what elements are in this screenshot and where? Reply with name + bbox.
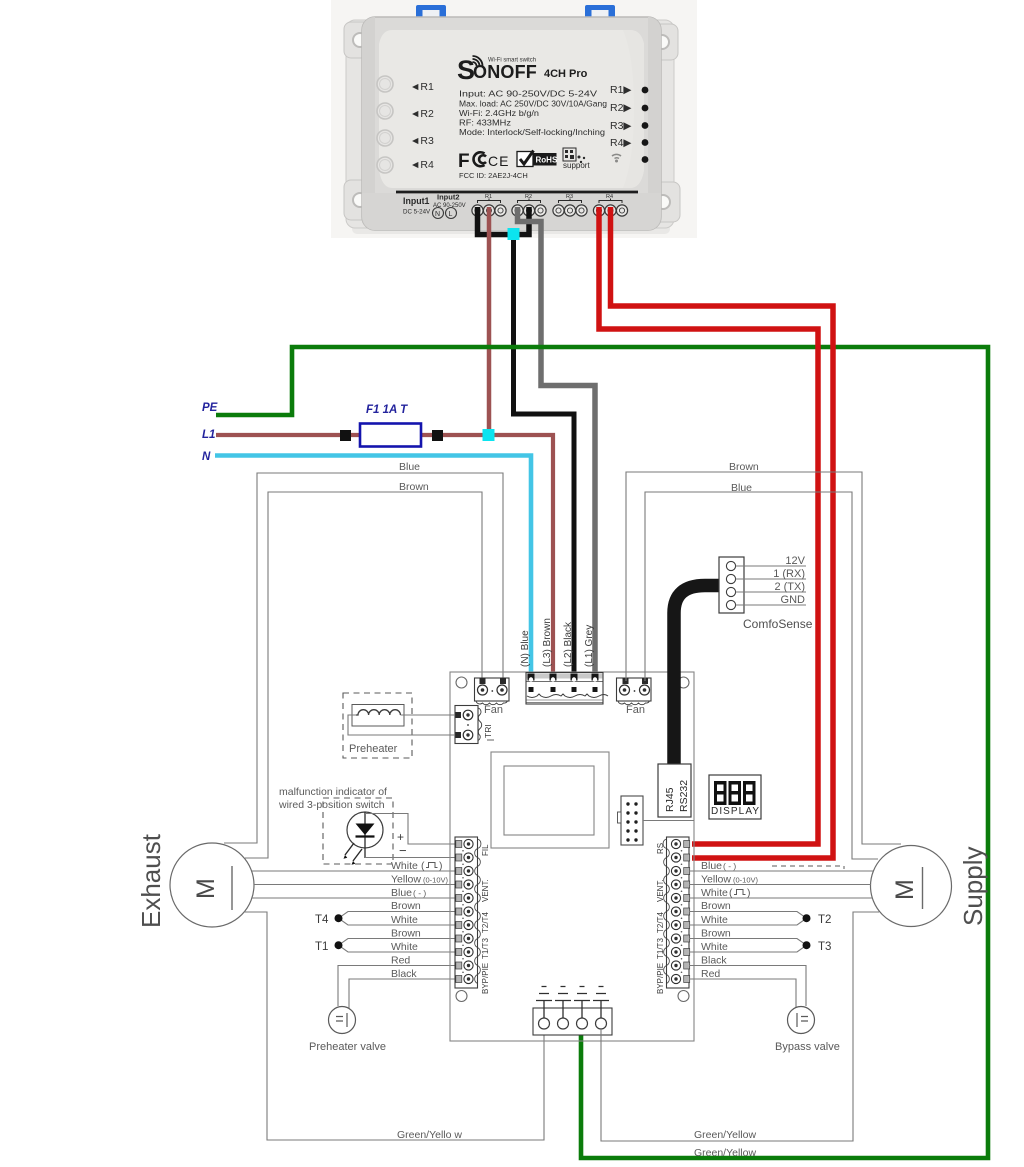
wire Brown routing box right	[626, 472, 901, 844]
svg-text:M: M	[192, 878, 220, 899]
wire preheater to TRI bottom	[348, 715, 455, 735]
terminal group R3	[553, 194, 587, 216]
svg-text:R4▶: R4▶	[610, 137, 632, 149]
svg-text:(: (	[729, 887, 733, 899]
RJ45 RS232 box	[658, 764, 691, 817]
right strip terminal y=857.5	[684, 854, 690, 861]
terminal strip left	[455, 837, 481, 988]
svg-text:Blue: Blue	[701, 860, 722, 872]
svg-text:Blue: Blue	[391, 887, 412, 899]
supply motor M	[871, 846, 952, 927]
svg-text:( - ): ( - )	[413, 888, 426, 898]
wire red to bypass valve	[689, 979, 796, 1008]
wifi status icon	[612, 154, 621, 158]
svg-text:Bypass valve: Bypass valve	[775, 1041, 840, 1053]
wire blue strip to motor	[689, 870, 873, 872]
svg-text:T1: T1	[315, 941, 328, 953]
svg-text:): )	[747, 887, 751, 899]
svg-text:+: +	[397, 830, 404, 844]
wire yellow strip to motor	[689, 884, 871, 886]
left strip terminal y=884.5	[456, 881, 462, 888]
svg-text:RoHS: RoHS	[536, 156, 558, 165]
wire grey R2-NO down	[518, 207, 596, 676]
logo wifi arcs	[473, 56, 483, 66]
TERMINAL_ROWS	[456, 839, 690, 983]
fan terminal block right	[617, 678, 652, 716]
svg-text:R4: R4	[606, 194, 613, 200]
svg-text:◄R3: ◄R3	[410, 135, 434, 147]
preheater coil box	[352, 705, 404, 727]
svg-text:Brown: Brown	[701, 900, 731, 912]
RIGHT_SIDE	[601, 461, 988, 1159]
svg-text:malfunction indicator of: malfunction indicator of	[279, 786, 387, 798]
svg-text:(: (	[421, 860, 425, 872]
LEFT_SIDE	[136, 461, 544, 1141]
node T1	[335, 941, 343, 949]
left strip terminal y=965.5	[456, 962, 462, 969]
svg-text:Green/Yellow: Green/Yellow	[694, 1147, 756, 1159]
earth symbol pin2	[555, 987, 571, 1019]
svg-text:Red: Red	[391, 955, 410, 967]
dashed remnant	[772, 866, 844, 869]
right strip terminal y=871	[684, 868, 690, 875]
wire blue motor to strip	[252, 897, 456, 899]
wires T4 pair	[339, 912, 457, 926]
svg-text:CE: CE	[488, 153, 509, 169]
right strip terminal y=925	[684, 922, 690, 929]
raised centre panel	[379, 30, 644, 188]
base plate	[346, 20, 674, 228]
svg-text:Brown: Brown	[729, 461, 759, 473]
PCB window inner	[504, 766, 594, 835]
right strip terminal y=965.5	[684, 962, 690, 969]
support QR	[563, 148, 585, 163]
wire preheater to TRI top	[401, 714, 456, 716]
svg-text:Fan: Fan	[484, 704, 503, 716]
svg-text:Yellow: Yellow	[391, 874, 421, 886]
7seg digit 1	[714, 781, 727, 805]
svg-text:4CH Pro: 4CH Pro	[544, 68, 588, 80]
svg-text:RJ45: RJ45	[664, 787, 676, 812]
svg-text:R1▶: R1▶	[610, 84, 632, 96]
left strip terminal y=844	[456, 841, 462, 848]
svg-text:Yellow: Yellow	[701, 874, 731, 886]
wire 12V	[736, 565, 806, 567]
svg-text:R2▶: R2▶	[610, 102, 632, 114]
svg-text:PE: PE	[202, 402, 218, 414]
pin header	[618, 796, 644, 845]
wire Blue routing box left	[224, 473, 503, 843]
svg-text:( - ): ( - )	[723, 861, 736, 871]
preheater coil	[356, 710, 400, 715]
exhaust motor M	[170, 843, 254, 927]
svg-text:Blue: Blue	[731, 482, 752, 494]
svg-text:N: N	[202, 451, 211, 463]
svg-text:BYP/PIE: BYP/PIE	[481, 963, 490, 994]
blue clip left	[416, 5, 446, 20]
right strip terminal y=952	[684, 949, 690, 956]
mounting ear bottom-right	[642, 182, 680, 222]
wire green PE earth loop	[216, 347, 988, 1158]
svg-text:L1: L1	[202, 429, 215, 441]
blue clip right	[585, 5, 615, 20]
wire black to preheater valve	[349, 979, 456, 1009]
bottom terminal bar	[362, 193, 661, 230]
terminal group R1	[472, 194, 506, 216]
corner hole top-right	[678, 677, 689, 688]
svg-text:◄R4: ◄R4	[410, 159, 434, 171]
mains terminal block	[526, 673, 608, 705]
left strip terminal y=871	[456, 868, 462, 875]
bypass valve	[788, 1007, 815, 1034]
button R4	[377, 157, 393, 173]
wire GND	[736, 604, 806, 606]
svg-text:BYP/PIE: BYP/PIE	[656, 963, 665, 994]
comms cable thick	[674, 586, 719, 766]
LED dots	[642, 87, 649, 94]
wire pin header to box edge	[643, 820, 694, 822]
junction cyan at sonoff	[508, 228, 520, 240]
wire white strip to motor	[689, 897, 872, 899]
svg-text:ComfoSense: ComfoSense	[743, 617, 813, 631]
fan terminal block left	[475, 678, 510, 716]
svg-text:R3▶: R3▶	[610, 120, 632, 132]
corner hole top-left	[456, 677, 467, 688]
svg-text:Brown: Brown	[701, 928, 731, 940]
svg-text:support: support	[563, 161, 590, 170]
wires T2 pair	[689, 912, 807, 926]
svg-text:Red: Red	[701, 968, 720, 980]
node T2	[803, 914, 811, 922]
svg-text:(L2) Black: (L2) Black	[563, 621, 574, 667]
wires T1 pair	[339, 939, 457, 953]
svg-text:Preheater: Preheater	[349, 743, 398, 755]
left strip terminal y=979	[456, 976, 462, 983]
display box	[709, 775, 761, 819]
N L circles	[433, 208, 444, 219]
wire brown R1-COM down	[487, 207, 492, 437]
svg-text:T4: T4	[315, 914, 329, 926]
dashed box 3-position switch	[323, 798, 393, 864]
mounting ear top-right	[640, 24, 678, 60]
MAIN_UNIT	[343, 555, 813, 1041]
svg-text:Black: Black	[701, 955, 727, 967]
svg-text:Preheater valve: Preheater valve	[309, 1041, 386, 1053]
TRI terminal block	[455, 706, 482, 744]
right strip terminal y=884.5	[684, 881, 690, 888]
corner hole bottom-left	[456, 991, 467, 1002]
svg-text:T2/T4: T2/T4	[656, 912, 665, 933]
right strip terminal y=844	[684, 841, 690, 848]
node T3	[803, 941, 811, 949]
svg-text:Max. load: AC 250V/DC 30V/10A/: Max. load: AC 250V/DC 30V/10A/Gang	[459, 99, 607, 109]
svg-text:N: N	[435, 211, 440, 218]
svg-text:VENT.: VENT.	[481, 879, 490, 902]
LED arrows	[345, 843, 362, 861]
right strip terminal y=979	[684, 976, 690, 983]
svg-text:White: White	[701, 914, 728, 926]
left strip terminal y=925	[456, 922, 462, 929]
svg-text:(L1) Grey: (L1) Grey	[584, 625, 595, 667]
svg-text:−: −	[399, 843, 407, 858]
svg-text:): )	[439, 860, 443, 872]
button R1	[377, 76, 393, 92]
svg-text:M: M	[891, 879, 919, 900]
svg-text:(0-10V): (0-10V)	[733, 876, 759, 885]
left strip terminal y=938.5	[456, 935, 462, 942]
preheater dashed box	[343, 693, 412, 758]
terminal group R4	[593, 194, 627, 216]
junction cyan at L1	[483, 429, 495, 441]
wire black junction to (L2)	[514, 236, 575, 676]
wire red R4-COM to RS pin2	[611, 207, 834, 858]
wire 2 TX	[736, 591, 806, 593]
left strip terminal y=857.5	[456, 854, 462, 861]
7seg digit 2	[729, 781, 742, 805]
svg-text:Black: Black	[391, 968, 417, 980]
SONOFF_DEVICE	[331, 0, 697, 238]
svg-text:RS: RS	[656, 843, 665, 854]
main unit box	[450, 672, 694, 1041]
svg-text:(N) Blue: (N) Blue	[520, 630, 531, 667]
svg-text:White: White	[701, 887, 728, 899]
svg-text:T2/T4: T2/T4	[481, 912, 490, 933]
dark separator line	[396, 191, 638, 194]
wire Blue routing box right	[645, 492, 878, 859]
right strip terminal y=911.5	[684, 908, 690, 915]
mounting ear top-left	[344, 22, 382, 58]
svg-text:FIL: FIL	[481, 844, 490, 856]
mounting ear bottom-left	[344, 180, 382, 220]
svg-text:White: White	[391, 860, 418, 872]
right strip terminal y=938.5	[684, 935, 690, 942]
svg-text:White: White	[391, 941, 418, 953]
svg-text:Supply: Supply	[958, 847, 988, 927]
svg-text:FCC ID: 2AE2J-4CH: FCC ID: 2AE2J-4CH	[459, 171, 528, 180]
photo backdrop	[331, 0, 697, 238]
svg-text:DC 5-24V: DC 5-24V	[403, 209, 431, 216]
svg-text:TRI: TRI	[483, 724, 493, 738]
svg-text:Wi-Fi smart switch: Wi-Fi smart switch	[488, 57, 536, 64]
svg-text:Green/Yellow: Green/Yellow	[694, 1129, 756, 1141]
svg-text:Blue: Blue	[399, 461, 420, 473]
svg-text:L: L	[449, 211, 453, 218]
corner hole bottom-right	[678, 991, 689, 1002]
wire cyan N to (N)	[215, 456, 531, 677]
LED indicator	[347, 812, 383, 848]
wire white motor to FIL strip	[252, 870, 456, 872]
svg-text:Input2: Input2	[437, 193, 460, 202]
svg-text:T1/T3: T1/T3	[656, 938, 665, 959]
WIRES_TOP	[202, 207, 988, 1158]
terminal strip right	[663, 837, 689, 988]
device body	[362, 17, 661, 230]
svg-text:Brown: Brown	[399, 481, 429, 493]
fuse F1	[360, 424, 421, 447]
earth symbol pin1	[536, 987, 552, 1019]
svg-text:RF: 433MHz: RF: 433MHz	[459, 118, 511, 128]
right strip terminal y=898	[684, 895, 690, 902]
preheater valve	[329, 1007, 356, 1034]
svg-text:RS232: RS232	[678, 780, 690, 812]
svg-text:2 (TX): 2 (TX)	[774, 581, 805, 593]
svg-text:White: White	[391, 914, 418, 926]
left strip terminal y=952	[456, 949, 462, 956]
node T4	[335, 914, 343, 922]
wire red R4-NO to RS pin1	[599, 207, 818, 844]
wire LED minus to strip	[365, 857, 456, 859]
wire black to bypass valve	[689, 966, 806, 1007]
svg-text:White: White	[701, 941, 728, 953]
wire LED plus to strip	[365, 814, 456, 845]
svg-text:T3: T3	[818, 941, 831, 953]
left strip terminal y=898	[456, 895, 462, 902]
earth symbol pin4	[593, 987, 609, 1019]
svg-text:Green/Yello w: Green/Yello w	[397, 1129, 462, 1141]
svg-text:Mode: Interlock/Self-locking/I: Mode: Interlock/Self-locking/Inching	[459, 127, 605, 137]
button R2	[377, 103, 393, 119]
wire red to preheater valve	[338, 966, 456, 1007]
terminal group R2	[512, 194, 546, 216]
wire black R1-NO to R2-COM loop	[478, 207, 530, 235]
svg-text:T1/T3: T1/T3	[481, 938, 490, 959]
earth wire supply motor to ground	[601, 912, 879, 1141]
earth symbol pin3	[574, 987, 590, 1019]
svg-text:Fan: Fan	[626, 704, 645, 716]
svg-text:◄R1: ◄R1	[410, 81, 434, 93]
clamp square left of fuse	[340, 430, 351, 441]
left strip terminal y=911.5	[456, 908, 462, 915]
svg-text:Input1: Input1	[403, 196, 429, 206]
svg-text:Input: AC 90-250V/DC 5-24V: Input: AC 90-250V/DC 5-24V	[459, 89, 597, 99]
wire 1 RX	[736, 578, 806, 580]
svg-text:1 (RX): 1 (RX)	[773, 568, 805, 580]
ComfoSense connector	[719, 557, 744, 613]
svg-text:Wi-Fi: 2.4GHz b/g/n: Wi-Fi: 2.4GHz b/g/n	[459, 108, 539, 118]
svg-text:GND: GND	[781, 594, 806, 606]
wire Brown routing box left	[245, 492, 482, 858]
panel right bevel	[623, 30, 644, 188]
svg-text:12V: 12V	[785, 555, 805, 567]
clamp square right of fuse	[432, 430, 443, 441]
svg-text:VENT.: VENT.	[656, 879, 665, 902]
wire yellow motor to strip	[254, 884, 456, 886]
svg-text:T2: T2	[818, 914, 831, 926]
earth wire exhaust motor to ground	[244, 912, 544, 1140]
svg-text:(L3) Brown: (L3) Brown	[542, 618, 553, 667]
PCB window outer	[491, 752, 609, 848]
svg-text:wired 3-position switch: wired 3-position switch	[278, 799, 385, 811]
svg-text:Brown: Brown	[391, 900, 421, 912]
svg-text:F1 1A T: F1 1A T	[366, 404, 408, 416]
svg-text:◄R2: ◄R2	[410, 108, 434, 120]
7seg digit 3	[743, 781, 756, 805]
wires T3 pair	[689, 939, 807, 953]
svg-text:Exhaust: Exhaust	[136, 833, 166, 928]
wire brown L1 to (L3)	[216, 435, 553, 676]
ground terminal block	[533, 1008, 612, 1035]
svg-text:(0-10V): (0-10V)	[423, 876, 449, 885]
svg-text:F: F	[458, 151, 470, 172]
svg-text:Brown: Brown	[391, 928, 421, 940]
button R3	[377, 130, 393, 146]
RoHS badge	[517, 152, 533, 167]
